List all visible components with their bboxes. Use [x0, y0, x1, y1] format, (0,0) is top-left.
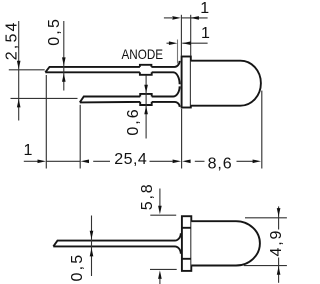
dimension 5,8 : line and arrows: [159, 189, 161, 284]
dimension 1 (second) : leaders and arrows: [167, 40, 208, 64]
svg-text:0,6: 0,6: [125, 107, 142, 135]
dimension 0,5 : line and arrows: [63, 21, 65, 91]
extension line C: flange left face: [181, 109, 183, 169]
anode lead flare into flange: [173, 61, 179, 84]
svg-text:25,4: 25,4: [114, 151, 147, 168]
dimension 4,9 : line and arrows: [278, 206, 280, 229]
flange (bottom view): [182, 216, 191, 271]
extension line A: anode lead tip: [45, 75, 47, 169]
flange internal line lower: [182, 258, 191, 260]
lead flare into flange (bottom view): [175, 233, 181, 254]
cathode lead flare into flange: [173, 86, 179, 107]
extension line cathode lead centerline: [11, 97, 78, 99]
extension line D: dome right end: [261, 91, 263, 169]
svg-text:5,8: 5,8: [139, 183, 156, 211]
extension line flange bottom: [150, 268, 177, 270]
svg-text:0,5: 0,5: [46, 17, 63, 46]
svg-text:1: 1: [200, 0, 209, 17]
dimension 0,6 : line and arrows: [145, 76, 147, 139]
extension line dome bottom: [244, 265, 287, 267]
extension line anode lead centerline: [9, 69, 45, 71]
svg-text:1: 1: [24, 142, 33, 159]
cathode lead (bottom lead) outline: [80, 97, 175, 103]
LED flange (top view): [182, 57, 191, 108]
arrowheads of bottom dimension row: [38, 160, 47, 164]
svg-text:8,6: 8,6: [208, 155, 233, 172]
lead (bottom view): [53, 241, 175, 247]
svg-text:0,5: 0,5: [69, 253, 86, 282]
anode lead bump (crimp): [140, 65, 152, 75]
flange internal line upper: [182, 227, 191, 229]
bottom dimension row: extension lines: [46, 75, 261, 169]
dimension 0,5 : line and arrows: [91, 216, 93, 277]
svg-text:ANODE: ANODE: [122, 47, 164, 62]
cathode lead bump (crimp): [140, 94, 152, 105]
body with dome (bottom view): [191, 221, 260, 265]
extension line B: cathode lead tip: [79, 105, 81, 169]
svg-text:4,9: 4,9: [268, 229, 285, 257]
extension line dome top: [245, 217, 287, 219]
svg-text:2,54: 2,54: [3, 20, 20, 60]
dimension 1 (first) : leaders and arrows: [164, 15, 208, 56]
svg-text:1: 1: [201, 25, 210, 42]
dimension 2,54 : dimension line and arrows: [18, 21, 20, 121]
anode lead (top lead) outline: [45, 67, 174, 72]
LED body with dome (top view): [191, 61, 261, 106]
dimension row line segments: [24, 160, 253, 162]
extension line flange top: [150, 214, 176, 216]
